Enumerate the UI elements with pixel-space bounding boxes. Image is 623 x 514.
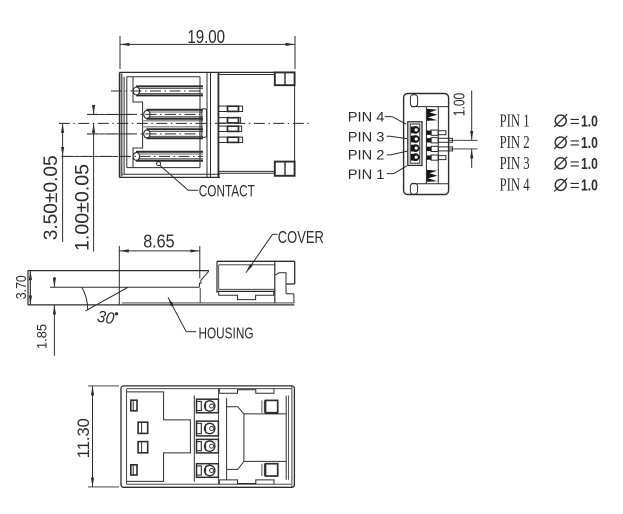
svg-text:1.0: 1.0 xyxy=(581,113,598,130)
svg-text:3.70: 3.70 xyxy=(14,275,30,299)
svg-text:PIN 2: PIN 2 xyxy=(500,132,530,152)
svg-text:PIN 3: PIN 3 xyxy=(348,129,385,145)
svg-text:=: = xyxy=(570,113,580,130)
svg-text:1.0: 1.0 xyxy=(581,135,598,152)
svg-text:PIN 1: PIN 1 xyxy=(348,166,385,182)
svg-text:1.00: 1.00 xyxy=(451,93,468,117)
svg-text:PIN 1: PIN 1 xyxy=(500,110,530,130)
svg-text:CONTACT: CONTACT xyxy=(199,182,255,201)
svg-text:=: = xyxy=(570,135,580,152)
svg-text:3.50±0.05: 3.50±0.05 xyxy=(41,155,62,240)
svg-text:=: = xyxy=(570,156,580,173)
svg-text:1.00±0.05: 1.00±0.05 xyxy=(73,164,94,251)
svg-text:30: 30 xyxy=(96,308,116,329)
svg-text:PIN 4: PIN 4 xyxy=(348,108,385,124)
svg-text:1.0: 1.0 xyxy=(581,156,598,173)
svg-text:19.00: 19.00 xyxy=(187,26,225,47)
svg-text:COVER: COVER xyxy=(278,227,324,247)
svg-text:11.30: 11.30 xyxy=(74,418,93,458)
svg-text:PIN 4: PIN 4 xyxy=(500,175,530,195)
svg-text:PIN 2: PIN 2 xyxy=(348,147,385,163)
svg-text:HOUSING: HOUSING xyxy=(199,325,254,342)
svg-text:1.0: 1.0 xyxy=(581,178,598,195)
svg-text:PIN 3: PIN 3 xyxy=(500,153,530,173)
svg-text:=: = xyxy=(570,178,580,195)
svg-text:8.65: 8.65 xyxy=(143,231,174,252)
svg-text:1.85: 1.85 xyxy=(34,324,50,349)
